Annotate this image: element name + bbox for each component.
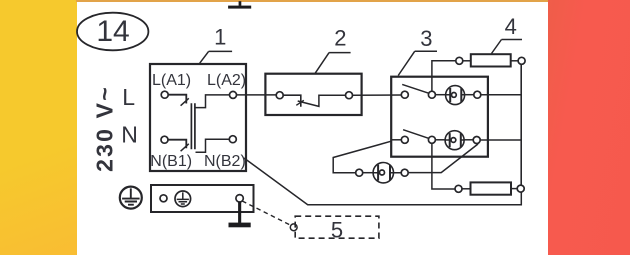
svg-text:N(B2): N(B2) <box>204 153 246 170</box>
svg-text:230 V~: 230 V~ <box>92 85 118 172</box>
svg-text:N(B1): N(B1) <box>150 153 192 170</box>
svg-text:5: 5 <box>331 217 343 242</box>
svg-text:L(A2): L(A2) <box>207 72 246 89</box>
svg-text:14: 14 <box>96 15 129 48</box>
svg-text:4: 4 <box>505 14 517 39</box>
svg-text:L(A1): L(A1) <box>152 72 191 89</box>
svg-text:2: 2 <box>334 26 346 51</box>
svg-text:L: L <box>122 84 135 110</box>
svg-text:N: N <box>121 122 138 148</box>
svg-text:3: 3 <box>420 26 432 51</box>
svg-text:1: 1 <box>214 25 226 50</box>
